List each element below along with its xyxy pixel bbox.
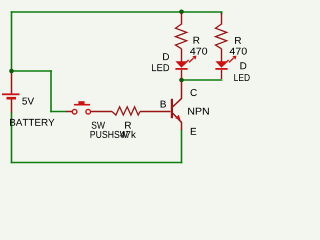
- node: top rail junction: [179, 10, 184, 15]
- label C: [191, 89, 197, 96]
- battery B1 5V: [2, 73, 20, 113]
- label NPN: [188, 108, 209, 115]
- label E: [191, 128, 196, 135]
- wire: top right corner drop: [221, 11, 223, 14]
- transistor Q1 NPN: [171, 82, 182, 131]
- wire: left vertical from top rail to battery junction: [11, 11, 13, 72]
- label BATTERY: [10, 119, 55, 126]
- resistor R 470 (right): [216, 13, 227, 62]
- label D_left: [163, 53, 169, 60]
- LED D (right): [215, 56, 236, 79]
- wire: LED bottoms horizontal: [181, 79, 223, 81]
- label LED_left: [152, 64, 169, 71]
- wire: top horizontal rail: [11, 11, 223, 13]
- resistor R 47k: [112, 107, 171, 115]
- label 470_b1: [190, 48, 207, 55]
- label R_b2: [235, 37, 241, 44]
- node: collector junction: [179, 78, 184, 83]
- label 47k: [120, 131, 136, 138]
- label B: [161, 101, 166, 108]
- wire: bottom rail: [11, 162, 183, 164]
- wire: battery negative down left side: [11, 112, 13, 164]
- resistor R 470 (left): [176, 13, 187, 62]
- label D_right: [240, 62, 246, 69]
- label 470_b2: [230, 48, 247, 55]
- switch SW PUSHSW: [66, 101, 112, 114]
- label LED_right: [234, 74, 249, 81]
- LED D (left): [175, 56, 196, 79]
- label SW: [92, 122, 105, 129]
- node: battery junction: [9, 69, 14, 74]
- wire: to switch: [50, 111, 66, 113]
- wire: emitter down to bottom rail: [181, 130, 183, 164]
- label 5V: [22, 98, 34, 105]
- wire: junction to switch horizontal: [12, 70, 52, 72]
- label R_b1: [194, 37, 200, 44]
- label R_47k: [125, 122, 131, 129]
- label PUSHSW: [91, 131, 129, 138]
- wire: down to switch level: [50, 70, 52, 112]
